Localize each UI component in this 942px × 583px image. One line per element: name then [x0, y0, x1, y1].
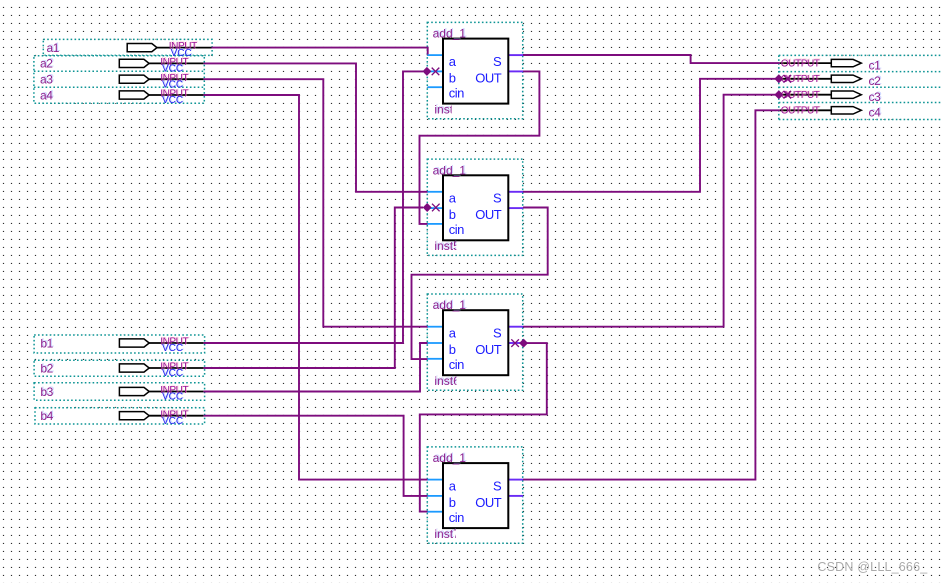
selection box b3	[34, 383, 205, 400]
selection box U3	[427, 294, 522, 390]
op block add_1 U3	[428, 298, 524, 388]
wire b3 to U3.b	[203, 343, 427, 392]
wire U3.OUT to U4.cin carry	[420, 343, 547, 512]
selection box b2	[34, 360, 205, 376]
c3 wire stub	[780, 94, 832, 96]
wire U3.S to c3	[523, 95, 780, 327]
junction X c3	[784, 91, 792, 99]
svg-text:VCC: VCC	[162, 95, 183, 106]
selection boxes c1-c4	[779, 55, 942, 119]
U1 pin a stub	[428, 54, 444, 56]
a4 wire stub	[149, 94, 204, 96]
U4 body	[443, 463, 508, 528]
selection box divider c2/c3	[779, 86, 942, 88]
svg-text:c4: c4	[869, 106, 882, 120]
svg-text:OUT: OUT	[475, 495, 502, 510]
op block add_1 U1	[428, 27, 524, 117]
b4 arrow symbol	[119, 412, 149, 420]
U2 pin b stub	[428, 207, 444, 209]
svg-text:c1: c1	[869, 59, 882, 73]
U2 label inst5	[434, 239, 460, 253]
U2 body	[443, 175, 508, 240]
a4 arrow symbol	[119, 91, 149, 99]
svg-text:b3: b3	[40, 385, 53, 399]
svg-text:OUT: OUT	[475, 70, 502, 85]
input pin b1	[40, 336, 203, 354]
U4 pin a stub	[428, 479, 444, 481]
junction diamond U3.OUT	[519, 339, 528, 348]
svg-text:S: S	[493, 54, 502, 69]
svg-text:b1: b1	[40, 336, 53, 350]
a3 wire stub	[149, 78, 204, 80]
input pin a1	[47, 41, 212, 59]
selection box divider a3/a4	[34, 86, 204, 88]
wire U2.OUT to U3.cin carry	[412, 208, 548, 360]
svg-text:S: S	[493, 191, 502, 206]
b3 wire stub	[149, 391, 204, 393]
a2 arrow symbol	[119, 59, 149, 67]
b2 wire stub	[149, 367, 204, 369]
U1 pin S stub	[508, 54, 524, 56]
U3 pin b stub	[428, 342, 444, 344]
selection box b4	[35, 408, 205, 424]
selection box divider a2/a3	[34, 70, 204, 72]
wire b1 to U1.b	[203, 71, 423, 343]
svg-text:OUT: OUT	[475, 342, 502, 357]
svg-text:inst6: inst6	[434, 374, 460, 388]
svg-text:VCC: VCC	[162, 343, 183, 354]
U2 pin OUT stub	[508, 207, 524, 209]
wire U4.S to c4	[523, 110, 780, 479]
svg-text:S: S	[493, 326, 502, 341]
U4 pin b stub	[428, 495, 444, 497]
svg-text:b: b	[449, 70, 456, 85]
U3 pin a stub	[428, 326, 444, 328]
selection box c outline top	[779, 54, 942, 56]
wire U1.S to c1	[523, 55, 780, 63]
junction diamond c2	[774, 74, 783, 83]
input pin a2	[40, 57, 203, 75]
svg-text:a3: a3	[40, 73, 53, 87]
c2 arrow symbol	[831, 75, 861, 82]
c3 arrow symbol	[831, 91, 861, 98]
U3 body	[443, 310, 508, 375]
output pin c2	[780, 74, 881, 88]
U1 pin b stub	[428, 70, 444, 72]
wire b2 to U2.b	[203, 208, 423, 369]
svg-text:add_1: add_1	[433, 298, 467, 312]
c2 wire stub	[780, 78, 832, 80]
U3 pin OUT stub	[508, 342, 524, 344]
svg-text:VCC: VCC	[162, 392, 183, 403]
a3 arrow symbol	[119, 75, 149, 83]
svg-text:inst: inst	[434, 102, 453, 116]
a1 wire stub	[157, 47, 212, 49]
input pin a3	[40, 73, 203, 91]
b4 wire stub	[149, 415, 204, 417]
U1 body	[443, 39, 508, 104]
svg-text:cin: cin	[449, 222, 464, 237]
svg-text:c3: c3	[869, 90, 882, 104]
svg-text:inst5: inst5	[434, 239, 460, 253]
svg-text:cin: cin	[449, 357, 464, 372]
U4 pin OUT stub	[508, 495, 524, 497]
selection box b1	[34, 335, 205, 353]
input pin b4	[40, 409, 203, 427]
output pin c4	[780, 106, 881, 120]
selection box a1	[43, 39, 212, 55]
svg-text:CSDN @LLL_666_: CSDN @LLL_666_	[817, 560, 928, 574]
svg-text:b: b	[449, 207, 456, 222]
selection box divider c3/c4	[779, 102, 942, 104]
wire U1.OUT to U2.cin carry	[420, 71, 540, 224]
input pin b2	[40, 361, 203, 379]
svg-text:add_1: add_1	[433, 163, 467, 177]
op block add_1 U2	[428, 163, 524, 253]
U2 pin a stub	[428, 191, 444, 193]
selection box divider c1/c2	[779, 71, 942, 73]
wire a4 to U4.a	[203, 95, 427, 480]
c1 wire stub	[780, 62, 832, 64]
svg-text:OUTPUT: OUTPUT	[781, 59, 820, 70]
selection box c outline left	[778, 55, 780, 119]
b2 arrow symbol	[119, 364, 149, 372]
b3 arrow symbol	[119, 387, 149, 395]
junction diamond c3	[774, 90, 783, 99]
selection box U1	[427, 22, 522, 118]
junction X U2.b	[432, 204, 440, 212]
U2 pin S stub	[508, 191, 524, 193]
selection boxes a2-a4	[34, 56, 204, 104]
svg-text:a2: a2	[40, 57, 53, 71]
selection box U4	[427, 447, 522, 543]
wire a1 to U1.a	[212, 48, 428, 55]
U3 pin S stub	[508, 326, 524, 328]
svg-text:b: b	[449, 495, 456, 510]
U3 label inst6	[434, 374, 460, 388]
wire b4 to U4.b	[203, 416, 427, 496]
U4 pin S stub	[508, 479, 524, 481]
svg-text:b2: b2	[40, 361, 53, 375]
output pin c1	[780, 59, 881, 73]
svg-text:b: b	[449, 342, 456, 357]
wire a3 to U3.a	[203, 79, 427, 327]
c1 arrow symbol	[831, 59, 861, 66]
svg-text:a1: a1	[47, 41, 60, 55]
svg-text:VCC: VCC	[162, 368, 183, 379]
junction X U1.b	[432, 68, 440, 76]
output pin c3	[780, 90, 881, 104]
U1 pin cin stub	[428, 86, 444, 88]
c4 arrow symbol	[831, 107, 861, 114]
U4 label inst7	[434, 527, 460, 541]
svg-text:cin: cin	[449, 85, 464, 100]
U3 pin cin stub	[428, 358, 444, 360]
svg-text:VCC: VCC	[162, 416, 183, 427]
wire U2.S to c2	[523, 79, 780, 192]
svg-text:cin: cin	[449, 510, 464, 525]
op block add_1 U4	[428, 451, 524, 541]
wire a2 to U2.a	[203, 63, 427, 191]
U2 pin cin stub	[428, 223, 444, 225]
junction X c2	[784, 75, 792, 83]
a2 wire stub	[149, 62, 204, 64]
svg-text:b4: b4	[40, 409, 53, 423]
b1 wire stub	[149, 342, 204, 344]
junction diamond U1.b	[422, 67, 431, 76]
a1 arrow symbol	[127, 44, 157, 52]
U4 pin cin stub	[428, 511, 444, 513]
svg-text:OUT: OUT	[475, 207, 502, 222]
svg-text:add_1: add_1	[433, 27, 467, 41]
b1 arrow symbol	[119, 339, 149, 347]
svg-text:c2: c2	[869, 74, 882, 88]
U1 label inst	[434, 102, 453, 116]
input pin b3	[40, 385, 203, 403]
svg-text:add_1: add_1	[433, 451, 467, 465]
svg-text:OUTPUT: OUTPUT	[781, 106, 820, 117]
junction X U3.OUT	[511, 339, 519, 347]
selection box c outline bottom	[779, 119, 942, 121]
c4 wire stub	[780, 109, 832, 111]
selection box U2	[427, 159, 522, 255]
svg-text:a4: a4	[40, 88, 53, 102]
svg-text:S: S	[493, 479, 502, 494]
U1 pin OUT stub	[508, 70, 524, 72]
junction diamond U2.b	[423, 203, 432, 212]
input pin a4	[40, 88, 203, 106]
